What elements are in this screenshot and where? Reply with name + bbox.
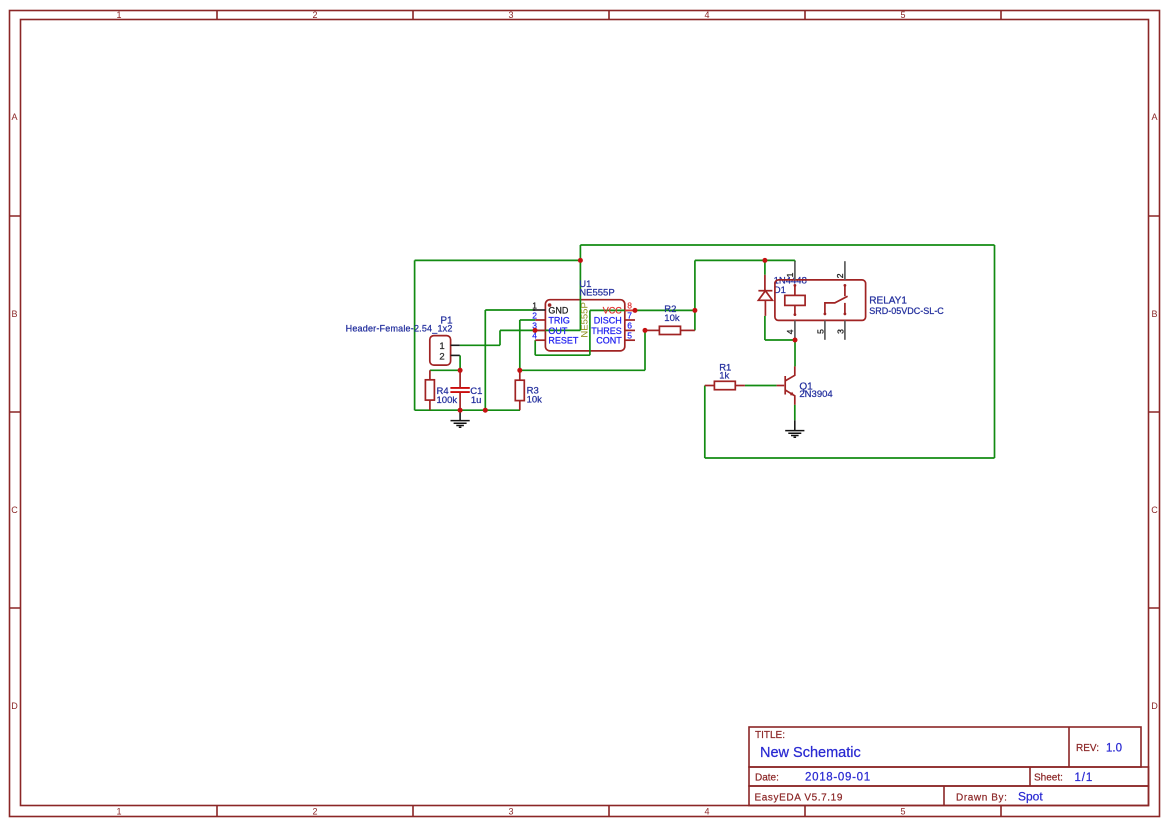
svg-text:GND: GND <box>548 305 569 315</box>
svg-text:OUT: OUT <box>548 326 568 336</box>
svg-text:NE555P: NE555P <box>579 287 614 298</box>
svg-text:100k: 100k <box>437 395 458 406</box>
svg-text:10k: 10k <box>527 395 543 406</box>
resistor R4 100k <box>425 370 457 410</box>
svg-text:THRES: THRES <box>591 326 622 336</box>
svg-text:Header-Female-2.54_1x2: Header-Female-2.54_1x2 <box>346 324 453 334</box>
wire relay pin4 to Q1 collector <box>794 340 796 366</box>
wire VCC net right <box>635 260 795 330</box>
svg-text:New Schematic: New Schematic <box>760 745 861 761</box>
title block <box>749 727 1149 806</box>
svg-text:VCC: VCC <box>603 305 623 315</box>
svg-text:6: 6 <box>627 321 632 331</box>
svg-text:5: 5 <box>816 329 826 334</box>
svg-text:REV:: REV: <box>1076 743 1099 754</box>
op-amp U1 NE555P annotations <box>548 279 615 337</box>
svg-text:3: 3 <box>836 329 846 334</box>
svg-text:D: D <box>1151 701 1158 711</box>
relay RELAY1 SRD-05VDC-SL-C <box>775 261 944 340</box>
svg-text:10k: 10k <box>664 313 680 324</box>
svg-text:5: 5 <box>627 331 632 341</box>
svg-text:SRD-05VDC-SL-C: SRD-05VDC-SL-C <box>869 306 944 316</box>
wire C1 to R4 <box>430 369 460 371</box>
svg-text:1: 1 <box>116 10 121 20</box>
U1 pin 4 RESET <box>532 331 579 346</box>
svg-text:Sheet:: Sheet: <box>1034 773 1063 784</box>
U1 pin 2 TRIG <box>532 310 570 325</box>
wire OUT to P1 <box>460 330 581 345</box>
svg-text:2018-09-01: 2018-09-01 <box>805 772 871 784</box>
svg-text:Date:: Date: <box>755 773 779 784</box>
svg-text:1k: 1k <box>719 371 729 382</box>
svg-text:4: 4 <box>704 807 709 817</box>
wire D1 taps <box>765 260 795 340</box>
wire Q1 emitter to ground <box>794 405 796 421</box>
svg-text:2N3904: 2N3904 <box>799 389 832 400</box>
svg-text:2: 2 <box>312 10 317 20</box>
U1 pin 1 GND <box>532 300 569 315</box>
resistor R2 10k <box>645 304 695 334</box>
svg-text:NE555P: NE555P <box>579 302 590 337</box>
svg-text:4: 4 <box>704 10 709 20</box>
U1 pin 8 VCC <box>603 300 635 315</box>
U1 pin 3 OUT <box>532 321 568 336</box>
svg-text:A: A <box>11 112 17 122</box>
svg-text:7: 7 <box>627 310 632 320</box>
svg-text:A: A <box>1151 112 1157 122</box>
connector P1 Header-Female-2.54_1x2 <box>346 316 460 366</box>
wire P1.2 to C1 <box>459 355 461 370</box>
wire GND net bottom <box>415 310 536 410</box>
svg-text:DISCH: DISCH <box>594 315 622 325</box>
svg-text:1: 1 <box>785 272 795 277</box>
junction dots <box>458 258 798 413</box>
svg-text:1: 1 <box>532 300 537 310</box>
U1 pin 6 THRES <box>591 321 635 336</box>
svg-text:4: 4 <box>785 329 795 334</box>
svg-text:C: C <box>1151 505 1158 515</box>
svg-text:2: 2 <box>312 807 317 817</box>
op-amp U1 NE555P body <box>545 300 624 351</box>
svg-text:RESET: RESET <box>548 336 579 346</box>
svg-text:1/1: 1/1 <box>1075 772 1094 784</box>
svg-text:2: 2 <box>439 351 444 362</box>
ground under Q1 <box>785 420 804 437</box>
svg-text:3: 3 <box>508 807 513 817</box>
U1 pin 5 CONT <box>596 331 635 346</box>
svg-text:1: 1 <box>116 807 121 817</box>
svg-text:D: D <box>11 701 18 711</box>
svg-text:CONT: CONT <box>596 336 622 346</box>
wire net OUT top loop <box>415 245 995 458</box>
svg-text:3: 3 <box>508 10 513 20</box>
U1 pin 7 DISCH <box>594 310 635 325</box>
svg-text:B: B <box>1151 309 1157 319</box>
svg-text:1.0: 1.0 <box>1106 743 1122 755</box>
wire R1 to Q1 base <box>745 385 777 387</box>
svg-text:B: B <box>11 309 17 319</box>
svg-text:TITLE:: TITLE: <box>755 730 785 741</box>
capacitor C1 1u <box>450 370 482 410</box>
resistor R3 10k <box>515 370 542 410</box>
svg-text:2: 2 <box>835 273 845 278</box>
svg-text:5: 5 <box>900 807 905 817</box>
diode D1 1N4448 <box>758 275 806 316</box>
transistor Q1 2N3904 <box>777 366 833 404</box>
resistor R1 1k <box>705 362 745 389</box>
svg-text:Drawn By:: Drawn By: <box>956 793 1008 804</box>
wire VCC to RESET loop <box>535 310 635 355</box>
svg-text:2: 2 <box>532 310 537 320</box>
svg-text:8: 8 <box>627 300 632 310</box>
ground under C1 <box>451 410 470 427</box>
svg-text:C: C <box>11 505 18 515</box>
wire TRIG to R3 and THRES <box>520 320 645 370</box>
svg-text:TRIG: TRIG <box>548 315 570 325</box>
svg-text:1u: 1u <box>471 395 482 406</box>
svg-text:5: 5 <box>900 10 905 20</box>
svg-text:Spot: Spot <box>1018 790 1043 804</box>
svg-text:EasyEDA V5.7.19: EasyEDA V5.7.19 <box>755 793 844 804</box>
